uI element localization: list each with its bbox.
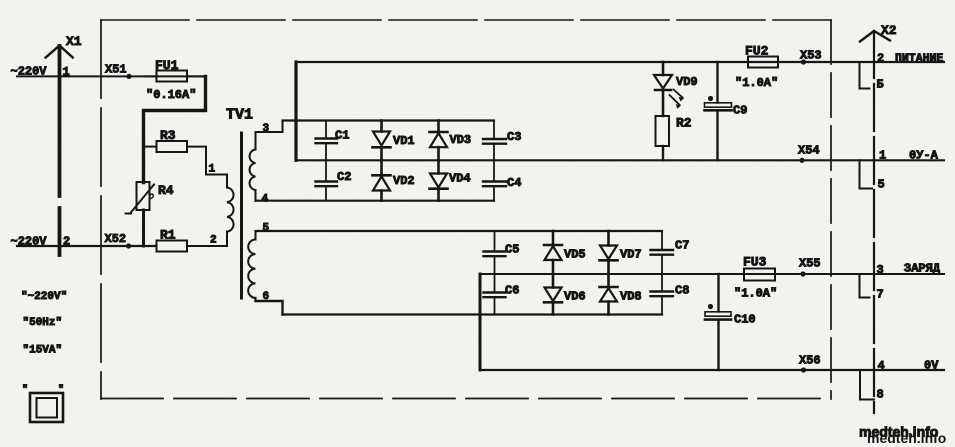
svg-text:2: 2 — [63, 235, 70, 249]
svg-text:"15VA": "15VA" — [23, 345, 63, 357]
connector X2 — [860, 31, 890, 413]
varistor R4 — [126, 182, 155, 214]
connector X1 — [46, 46, 73, 256]
node X52 — [126, 243, 131, 248]
svg-text:0V: 0V — [924, 359, 939, 373]
svg-text:X55: X55 — [799, 257, 821, 271]
svg-text:C5: C5 — [505, 243, 519, 257]
X2 pin 5 bracket — [860, 160, 873, 188]
svg-text:2: 2 — [210, 235, 217, 247]
wire R1 to transformer pin 2 — [187, 245, 227, 247]
device boundary dashed box — [101, 20, 831, 399]
capacitor C2 — [316, 160, 338, 200]
capacitor C10 (polarized) — [705, 274, 731, 370]
node X51 — [126, 74, 131, 79]
wire pin 3 to bridge top rail — [256, 121, 283, 133]
svg-text:R4: R4 — [158, 183, 174, 198]
fuse FU3 — [744, 269, 775, 281]
diode VD1 — [373, 121, 391, 161]
wire pin 6 jog down to bottom rail 2 — [256, 301, 283, 315]
X2 pin 6 bracket — [860, 62, 870, 89]
diode VD8 — [600, 274, 618, 315]
X2 pin 8 bracket — [860, 370, 874, 400]
diode VD6 — [544, 274, 562, 315]
node X56 — [801, 367, 806, 372]
resistor R1 — [157, 241, 188, 252]
svg-text:VD6: VD6 — [564, 290, 586, 304]
thick wire bridge1 output up to supply rail — [294, 62, 297, 160]
X2 pin 7 bracket — [860, 274, 870, 298]
svg-text:R1: R1 — [160, 228, 176, 243]
svg-text:": " — [22, 384, 28, 396]
resistor R3 — [157, 141, 188, 152]
bridge 2 top rail (pin 5) — [256, 230, 663, 232]
diode VD5 — [544, 231, 562, 274]
svg-text:VD9: VD9 — [676, 75, 698, 89]
svg-text:5: 5 — [263, 223, 270, 235]
svg-text:X53: X53 — [800, 49, 822, 63]
svg-text:C7: C7 — [675, 239, 689, 253]
svg-text:"50Hz": "50Hz" — [23, 317, 63, 329]
svg-text:1: 1 — [879, 149, 886, 163]
capacitor C6 — [484, 274, 506, 315]
svg-text:0У-А: 0У-А — [909, 149, 939, 163]
node X54 — [799, 158, 804, 163]
TV1 core — [240, 133, 243, 298]
capacitor C7 — [651, 231, 674, 274]
svg-text:X54: X54 — [798, 144, 820, 158]
svg-text:C6: C6 — [505, 284, 519, 298]
svg-text:C2: C2 — [337, 170, 351, 184]
svg-text:1: 1 — [63, 65, 70, 79]
svg-text:VD5: VD5 — [564, 248, 586, 262]
svg-text:X1: X1 — [66, 34, 82, 49]
wire R3 to transformer pin 1 — [187, 147, 227, 175]
svg-text:VD1: VD1 — [393, 134, 415, 148]
svg-text:4: 4 — [262, 194, 269, 206]
svg-text:~220V: ~220V — [11, 235, 48, 249]
capacitor C4 — [483, 160, 506, 200]
svg-text:VD3: VD3 — [450, 133, 472, 147]
bridge 2 bottom rail (pin 6) — [283, 313, 663, 315]
svg-text:R2: R2 — [676, 116, 692, 131]
wire X52 input ~220V — [17, 245, 157, 247]
diode VD7 — [600, 231, 618, 274]
svg-text:VD8: VD8 — [620, 290, 642, 304]
svg-text:2: 2 — [877, 52, 884, 66]
supply rail to FU2 / PITANIE — [296, 61, 944, 63]
svg-text:X51: X51 — [105, 63, 127, 77]
svg-text:VD2: VD2 — [393, 174, 415, 188]
capacitor C3 — [483, 121, 506, 161]
node X53 — [801, 59, 806, 64]
bridge 1 top rail (AC from pin 3) — [283, 119, 495, 121]
thick wire mid rail 2 down to 0V rail — [479, 274, 482, 370]
svg-text:7: 7 — [877, 288, 884, 302]
svg-text:4: 4 — [878, 359, 885, 373]
resistor R2 — [656, 116, 670, 146]
svg-text:"1.0A": "1.0A" — [735, 76, 778, 90]
svg-text:3: 3 — [263, 123, 270, 135]
node X55 — [800, 271, 805, 276]
svg-text:": " — [58, 384, 64, 396]
watermark medteh.info — [859, 424, 946, 447]
svg-text:FU3: FU3 — [743, 255, 767, 270]
svg-text:X56: X56 — [799, 354, 821, 368]
class II insulation symbol (double square) — [22, 384, 64, 422]
wire fuse output down-left to node A — [144, 76, 206, 182]
svg-text:6: 6 — [263, 291, 270, 303]
TV1 secondary winding I (pins 3-4) — [250, 132, 256, 201]
bridge 1 bottom rail (AC from pin 4) — [256, 200, 495, 202]
TV1 primary winding (pins 1-2) — [227, 175, 234, 247]
svg-text:VD7: VD7 — [620, 248, 642, 262]
diode VD3 — [430, 121, 448, 161]
wire R2 to mid rail — [662, 146, 664, 160]
svg-text:1: 1 — [209, 164, 216, 176]
svg-text:"1.0A": "1.0A" — [734, 287, 777, 301]
mid rail (0U-A / bridge outputs) — [296, 159, 944, 161]
capacitor C5 — [484, 231, 506, 274]
svg-text:medteh.info: medteh.info — [859, 424, 938, 440]
svg-text:X52: X52 — [105, 232, 127, 246]
svg-text:C3: C3 — [507, 130, 521, 144]
svg-text:5: 5 — [878, 178, 885, 192]
svg-text:TV1: TV1 — [226, 107, 253, 124]
svg-text:X2: X2 — [881, 23, 897, 38]
svg-text:8: 8 — [877, 388, 884, 402]
diode VD4 — [430, 160, 448, 200]
svg-text:VD4: VD4 — [449, 172, 471, 186]
svg-text:C4: C4 — [507, 176, 521, 190]
LED VD9 — [654, 62, 683, 116]
TV1 secondary winding II (pins 5-6) — [248, 231, 255, 301]
capacitor C9 (polarized) — [705, 62, 732, 160]
svg-text:"~220V": "~220V" — [21, 291, 67, 303]
svg-text:C9: C9 — [733, 104, 747, 118]
svg-text:ПИТАНИЕ: ПИТАНИЕ — [895, 53, 943, 66]
capacitor C1 — [316, 121, 338, 161]
svg-text:Б: Б — [877, 78, 884, 92]
svg-text:C10: C10 — [734, 313, 756, 327]
svg-text:~220V: ~220V — [11, 65, 48, 79]
wire X51 input ~220V — [17, 75, 206, 77]
wire node A to R3 — [144, 146, 157, 148]
svg-text:C8: C8 — [675, 284, 689, 298]
svg-text:"0.16A": "0.16A" — [146, 88, 196, 102]
svg-text:R3: R3 — [160, 128, 176, 143]
fuse FU2 — [748, 57, 778, 68]
svg-text:C1: C1 — [335, 129, 349, 143]
fuse FU1 — [157, 71, 188, 82]
bridge 2 mid rail to FU3 / ZARYAD — [480, 273, 944, 275]
diode VD2 — [373, 160, 391, 200]
wire R4 bottom to X52 wire — [142, 210, 145, 246]
svg-text:FU2: FU2 — [745, 44, 769, 59]
capacitor C8 — [651, 274, 674, 315]
svg-text:FU1: FU1 — [155, 58, 179, 73]
svg-text:3: 3 — [877, 263, 884, 277]
svg-text:ЗАРЯД: ЗАРЯД — [904, 262, 941, 276]
0V rail — [480, 369, 944, 371]
